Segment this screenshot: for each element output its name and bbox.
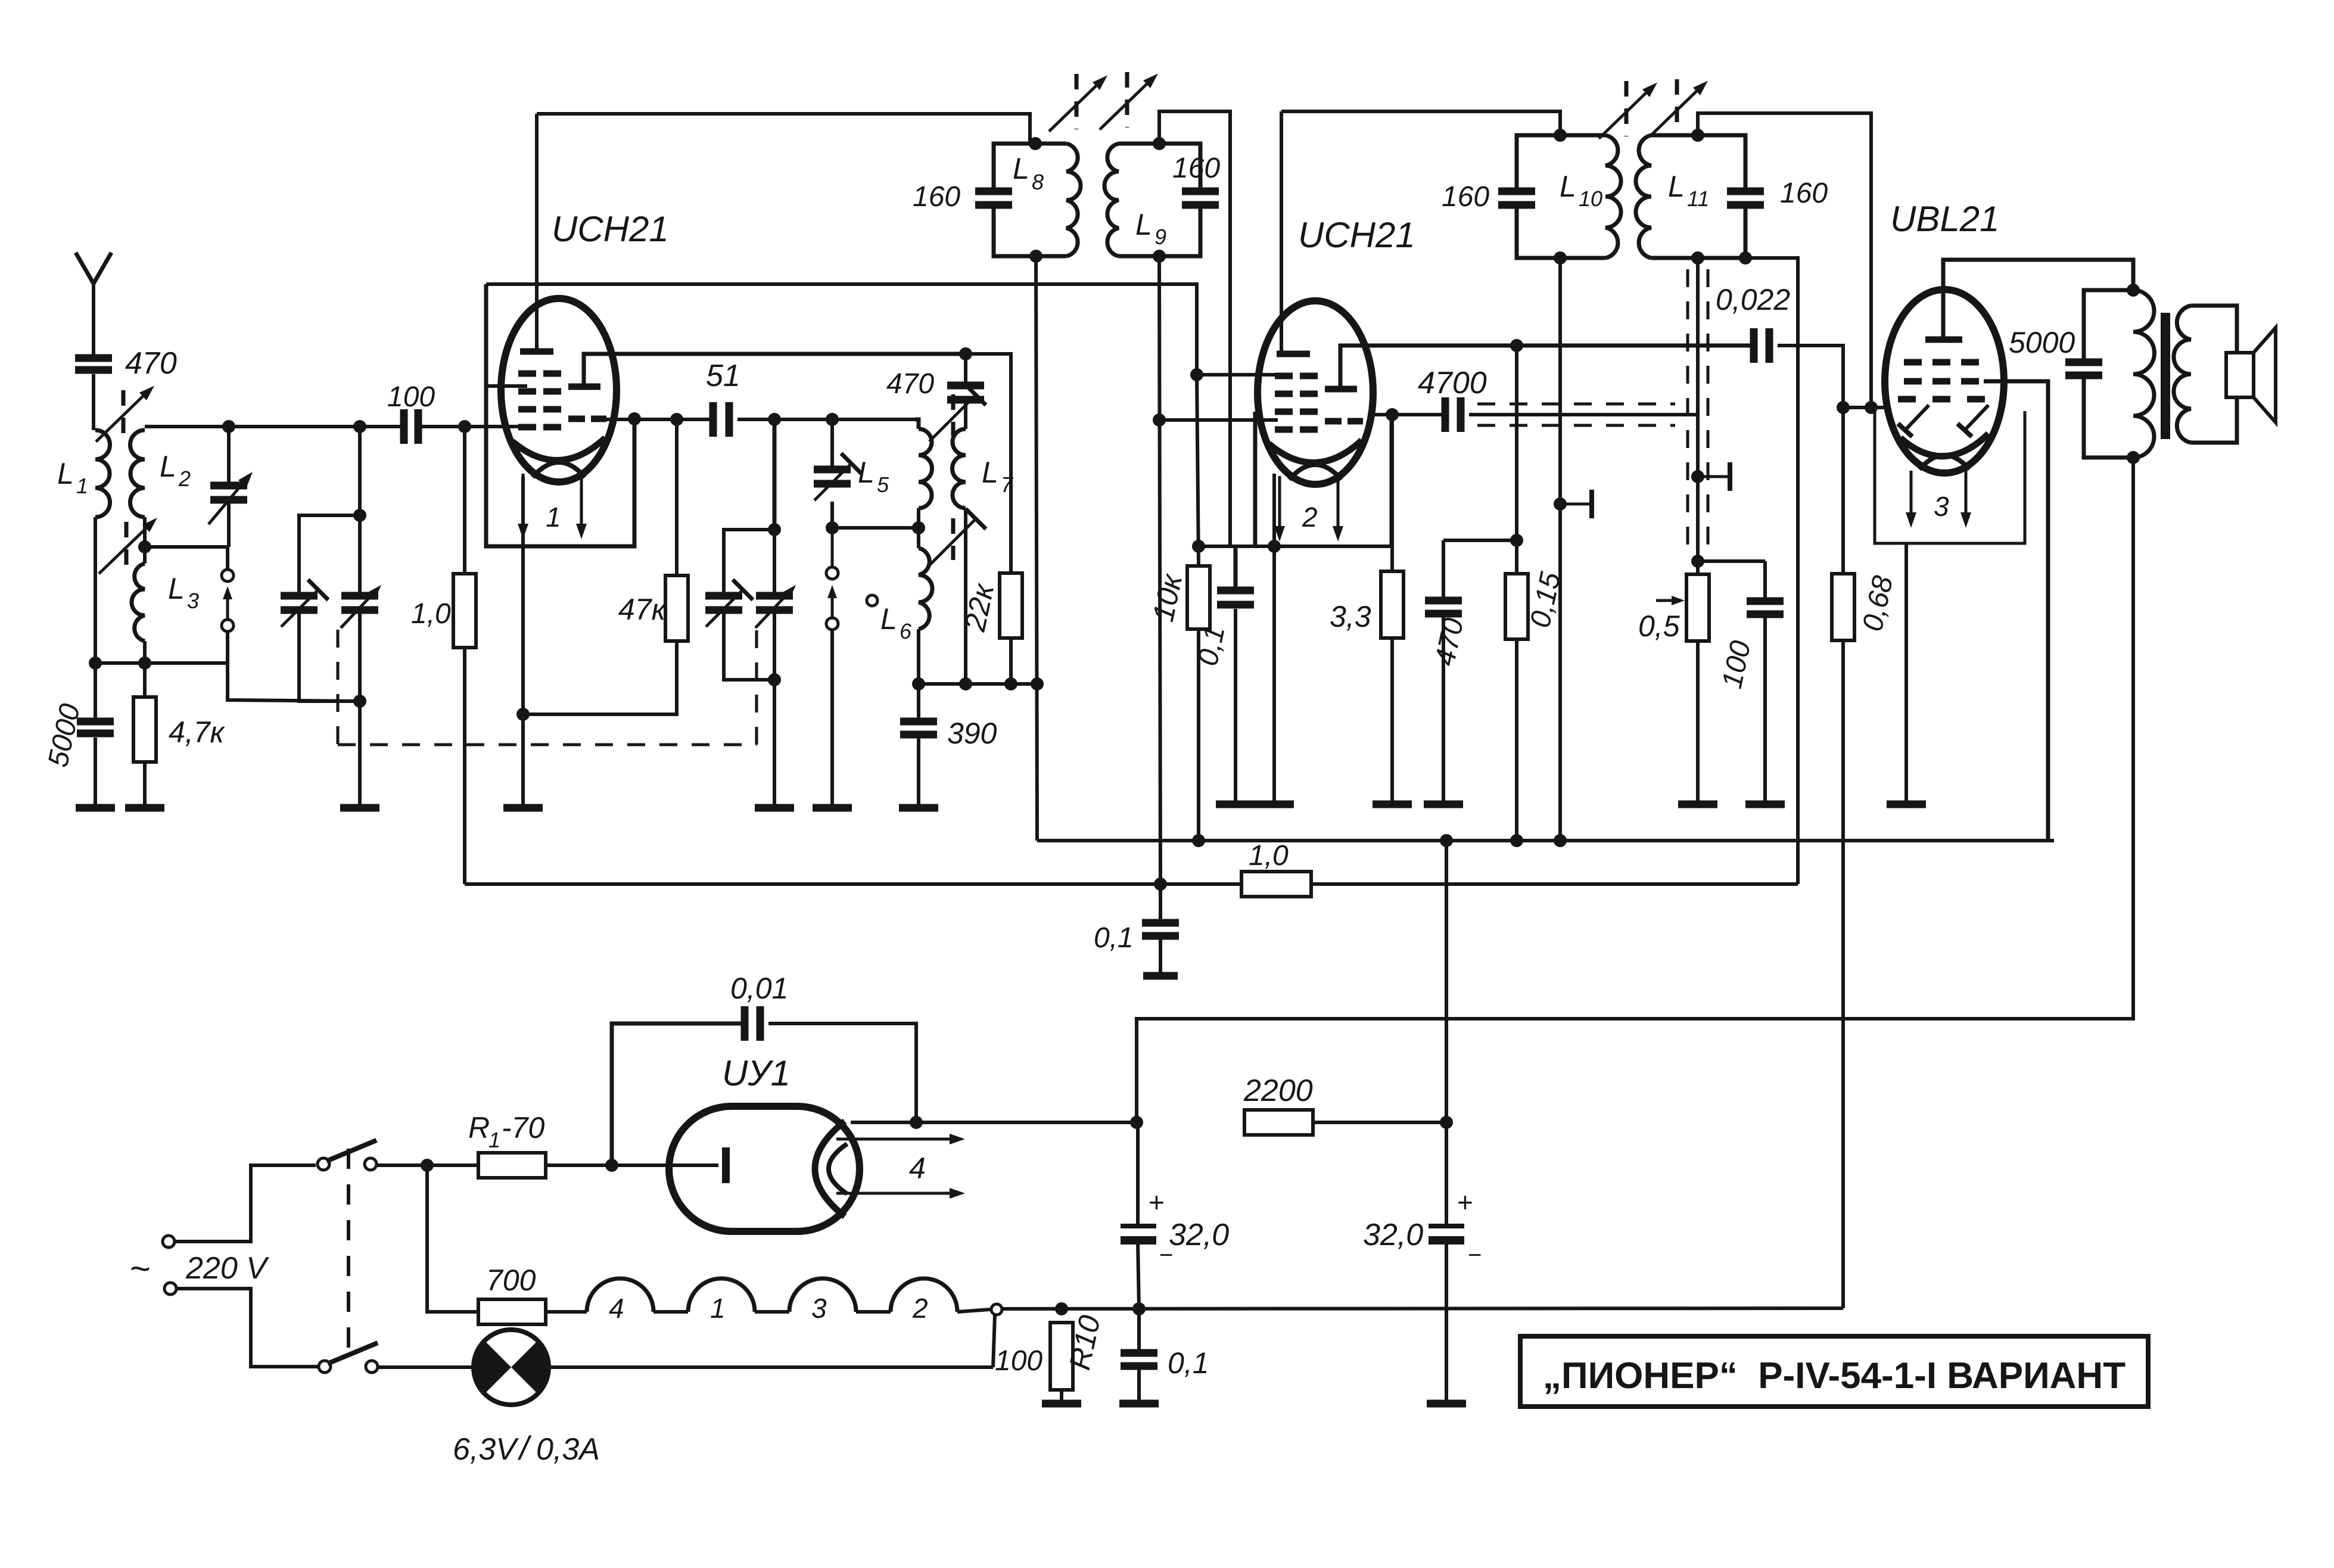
- wire cathode to 47k: [523, 641, 677, 714]
- node R10 node: [1055, 1302, 1068, 1315]
- tube U1 UCH21 grids: [518, 374, 561, 427]
- svg-text:0,3A: 0,3A: [536, 1432, 600, 1467]
- label winding 2: [912, 1293, 928, 1324]
- resistor R9 0.5M pot: [1686, 574, 1709, 641]
- coil L7: [953, 429, 966, 684]
- node t2 sig node: [1153, 413, 1166, 427]
- svg-text:1: 1: [76, 474, 88, 498]
- label U1 name UCH21: [552, 209, 669, 249]
- tuning gang section 1: [358, 427, 362, 701]
- wire t2 grid stub: [1197, 373, 1281, 377]
- node R1 node: [421, 1159, 434, 1172]
- output transformer core: [2161, 313, 2170, 439]
- wire antenna bus: [145, 425, 403, 428]
- node osc anode node: [959, 347, 972, 360]
- capacitor C3 plates: [210, 486, 247, 500]
- tube U3 screen wire: [1984, 381, 2048, 841]
- label C17 value 470: [1429, 615, 1470, 669]
- label title text: [1543, 1355, 2126, 1396]
- label heater winding 2: [1302, 502, 1318, 533]
- capacitor C20 100pF: [1698, 561, 1765, 802]
- wire L11 bottom to AVC corner: [1745, 258, 1798, 884]
- svg-text:L: L: [1560, 170, 1576, 203]
- wire gang2 frame2: [724, 608, 774, 680]
- node L5 tap node: [826, 521, 839, 534]
- label C14 value 160: [1172, 153, 1220, 184]
- tube1 triode anode lead: [584, 354, 966, 387]
- node B+ node c: [1510, 834, 1523, 847]
- capacitor C10 L5 padder: [814, 469, 851, 484]
- capacitor C11 plates: [947, 385, 984, 400]
- node L10 bottom: [1554, 251, 1567, 265]
- wire L11 top to grid line: [1698, 113, 1871, 407]
- resistor 1.0M grid: [463, 427, 466, 574]
- capacitor C14 160pF: [1182, 191, 1219, 205]
- antenna: [76, 253, 111, 356]
- wire gang1 frame2: [299, 608, 360, 701]
- svg-text:UCH21: UCH21: [552, 209, 669, 249]
- shielded lead dashes h: [1477, 404, 1675, 425]
- svg-text:9: 9: [1154, 225, 1166, 249]
- wire osc grid wire: [600, 418, 709, 421]
- tube U3 anode lead: [1943, 260, 2133, 338]
- wire winding to node: [957, 1309, 990, 1312]
- ground S1b ground: [813, 804, 852, 812]
- coil L5: [915, 419, 932, 528]
- wire 3.3M drop: [1390, 415, 1394, 571]
- wire 700 branch: [427, 1165, 478, 1312]
- svg-text:470: 470: [125, 346, 177, 381]
- label R11 value 1,0: [1249, 840, 1289, 872]
- wire gang2 frame: [724, 530, 774, 594]
- C4 arrow: [341, 585, 381, 628]
- node L5L6 node: [912, 521, 925, 534]
- wire gang2 ground lead: [773, 680, 776, 805]
- band switch S1a: [222, 570, 234, 631]
- label C26 plus: [1457, 1187, 1473, 1218]
- svg-text:160: 160: [1780, 178, 1828, 209]
- coil L1: [95, 430, 110, 663]
- label R1 sub: [488, 1128, 500, 1152]
- node gang2 top: [768, 523, 781, 536]
- wire C5000 to ground: [94, 738, 97, 805]
- label L7 sub: [1001, 472, 1014, 497]
- svg-text:51: 51: [706, 359, 740, 393]
- oscillator feedback loop tube1: [486, 284, 634, 546]
- label R7 value 3,3: [1330, 600, 1371, 633]
- ground C390 ground: [899, 804, 938, 812]
- node screen node: [1510, 534, 1523, 547]
- tube U3 cathode: [1900, 434, 1988, 469]
- ground tube2 cathode ground: [1255, 801, 1294, 808]
- tube U3 anode: [1925, 337, 1962, 343]
- wire switch to R1: [376, 1163, 478, 1167]
- label L3: [168, 572, 185, 605]
- node anode junction UY1: [605, 1159, 618, 1172]
- capacitor C2 5000pF: [77, 721, 114, 733]
- svg-text:L: L: [858, 456, 875, 489]
- svg-text:160: 160: [1172, 153, 1220, 184]
- wire L5-L6 tap: [832, 526, 919, 530]
- tube U2 UCH21 envelope: [1258, 301, 1373, 484]
- svg-text:0,01: 0,01: [730, 972, 788, 1005]
- ground C17 ground: [1424, 801, 1463, 808]
- label L8 sub: [1032, 170, 1044, 194]
- capacitor C7 51pF: [713, 402, 729, 437]
- tube U4 heater pins: [836, 1134, 965, 1199]
- pilot lamp 6.3V: [378, 1365, 993, 1369]
- label R1 name: [468, 1111, 490, 1144]
- svg-text:470: 470: [886, 368, 934, 400]
- label L2: [160, 450, 176, 483]
- node B+ node b: [1440, 834, 1453, 847]
- svg-text:100: 100: [995, 1345, 1042, 1377]
- label R2 value 4,7к: [169, 715, 226, 749]
- wire R1.0 to AVC bus: [463, 648, 466, 884]
- svg-text:UCH21: UCH21: [1298, 215, 1415, 255]
- tube U3 grid rows: [1898, 362, 1985, 399]
- speaker: [2191, 306, 2276, 443]
- svg-text:0,022: 0,022: [1716, 283, 1790, 316]
- svg-text:+: +: [1457, 1187, 1473, 1218]
- svg-text:−: −: [1468, 1242, 1482, 1268]
- resistor R4 47k: [665, 575, 688, 641]
- trimmer arrow T1 slug arrow a: [1049, 74, 1107, 132]
- wire B+ filtered up: [1445, 841, 1448, 1122]
- node B+ node a: [1192, 834, 1205, 847]
- node cathode node t1: [516, 708, 530, 721]
- svg-text:L: L: [982, 456, 998, 489]
- node AVC node: [1154, 878, 1167, 891]
- node L9 bottom: [1153, 250, 1166, 263]
- svg-text:32,0: 32,0: [1169, 1218, 1229, 1252]
- ground tube1 cathode ground: [503, 804, 543, 812]
- tube U3 UBL21 envelope: [1885, 290, 2004, 473]
- ground antenna ground: [76, 804, 115, 812]
- wire 2200 out: [1313, 1121, 1446, 1124]
- trimmer arrow T2 slug arrow a: [1599, 81, 1657, 139]
- label C16 value 4700: [1418, 366, 1487, 400]
- capacitor C21 plates: [1754, 328, 1769, 363]
- node L8 bottom: [1029, 250, 1042, 263]
- svg-text:L: L: [1013, 152, 1029, 185]
- node gang1 top: [353, 509, 366, 522]
- node osc grid node: [670, 413, 683, 426]
- tube U2 UCH21 triode anode: [1325, 386, 1357, 393]
- tube U2 UCH21 triode grid dashes: [1325, 418, 1363, 425]
- capacitor C15 0.1: [1234, 546, 1238, 802]
- label mains 220 V: [185, 1251, 269, 1286]
- band switch S1b: [826, 528, 838, 630]
- label L3 sub: [187, 589, 199, 613]
- node B+ filtered node: [1440, 1116, 1453, 1129]
- ground R10 ground: [1042, 1400, 1081, 1408]
- wire 0.01 to B+: [768, 1023, 916, 1122]
- wire L2 bottom to switch: [145, 547, 228, 570]
- label C6 value 100: [387, 381, 435, 413]
- svg-text:6,3V: 6,3V: [453, 1432, 519, 1467]
- label L10 sub: [1579, 186, 1602, 211]
- tube2 anode top lead: [1280, 111, 1283, 351]
- svg-text:4: 4: [609, 1293, 624, 1324]
- label C18 value 160: [1442, 181, 1489, 213]
- wire L9 top to osc grid: [1159, 111, 1230, 546]
- label lamp rating3: [536, 1432, 600, 1467]
- label R3 value 1,0: [411, 598, 451, 630]
- capacitor C24 plates: [745, 1006, 760, 1041]
- tube2 triode anode lead: [1340, 346, 1750, 389]
- capacitor C18 160pF: [1498, 191, 1535, 205]
- label R6 value 10к: [1146, 570, 1189, 624]
- svg-text:L: L: [57, 457, 74, 490]
- wire 47k top to osc grid: [675, 419, 679, 575]
- wire mains top: [175, 1165, 316, 1242]
- wire antenna cap to L1: [92, 374, 95, 430]
- label C21 value 0,022: [1716, 283, 1790, 316]
- svg-text:2: 2: [1302, 502, 1318, 533]
- svg-text:2: 2: [912, 1293, 928, 1324]
- resistor R6 10k: [1187, 566, 1210, 629]
- resistor R13 700: [478, 1299, 546, 1324]
- tube U4 UY1 envelope: [669, 1106, 860, 1231]
- wire tube1 grid2 stub: [486, 384, 527, 388]
- resistor R11 1.0M AVC: [1241, 872, 1311, 897]
- trimmer arrow L7 trim arrow: [929, 385, 986, 441]
- capacitor C26 32.0 second: [1445, 1122, 1448, 1224]
- tube U1 UCH21 heater pins: [518, 474, 587, 539]
- label L6: [880, 602, 897, 636]
- label R1 value -70: [502, 1111, 544, 1144]
- wire tube2 signal grid wire: [1159, 418, 1278, 422]
- svg-text:L: L: [160, 450, 176, 483]
- label L5 sub: [877, 472, 889, 497]
- ground tube3 cathode ground: [1887, 801, 1926, 808]
- wire tube1 cathode lead: [521, 477, 525, 805]
- label C26 minus: [1468, 1242, 1482, 1268]
- resistor R2 4.7k: [133, 697, 156, 762]
- capacitor C20 plates: [1747, 601, 1784, 614]
- wire bottom link L1-L3: [95, 661, 228, 665]
- node pot top node: [1691, 555, 1704, 568]
- label L7: [982, 456, 998, 489]
- svg-text:-70: -70: [502, 1111, 544, 1144]
- node L11 top: [1691, 129, 1704, 142]
- svg-text:8: 8: [1032, 170, 1044, 194]
- ground gang1 ground: [340, 804, 379, 812]
- capacitor C16 4700pF: [1372, 413, 1442, 416]
- label L1: [57, 457, 74, 490]
- capacitor C12 plates: [900, 721, 937, 735]
- label C24 value 0,01: [730, 972, 788, 1005]
- label lamp rating2: [517, 1429, 532, 1467]
- node L11 bottom b: [1739, 251, 1752, 265]
- label L6 sub: [900, 619, 912, 643]
- node L2 bottom node: [138, 540, 151, 553]
- ground C20 ground: [1745, 801, 1785, 808]
- capacitor C24 0.01: [612, 1023, 741, 1165]
- svg-text:1: 1: [710, 1293, 726, 1324]
- svg-text:160: 160: [1442, 181, 1489, 213]
- svg-text:+: +: [1149, 1187, 1165, 1218]
- IF transformer T1 box L9: [1104, 144, 1200, 256]
- tube U1 UCH21 cathode: [512, 438, 605, 477]
- svg-text:UBL21: UBL21: [1890, 199, 1999, 239]
- ground R3.3 ground: [1373, 801, 1412, 808]
- label C11 value 470: [886, 368, 934, 400]
- svg-text:1,0: 1,0: [411, 598, 451, 630]
- node gang2 bottom: [768, 673, 781, 686]
- trimmer arrow L1-L2 coupling arrow: [99, 518, 157, 574]
- capacitor C27 0.1 bottom: [1137, 1309, 1141, 1401]
- wire rectifier output: [851, 1121, 1137, 1124]
- node ant bus node 1: [222, 420, 235, 433]
- capacitor C22 plates: [2065, 362, 2102, 375]
- node gang1 bottom: [353, 695, 366, 708]
- switch S2b: [319, 1343, 378, 1373]
- svg-text:7: 7: [1001, 472, 1014, 497]
- node 22k bottom node: [1004, 677, 1017, 690]
- wire L9 bottom to AVC: [1159, 256, 1160, 884]
- label L9 sub: [1154, 225, 1166, 249]
- resistor R 0.68M grid: [1841, 407, 1845, 574]
- pot wiper arrow: [1656, 596, 1685, 605]
- node 10k top node: [1192, 540, 1205, 553]
- C3 arrow: [208, 472, 253, 524]
- tube U1 UCH21 anode (hexode): [520, 349, 553, 355]
- screen chain 0.15: [1515, 346, 1518, 574]
- node L11 bottom: [1691, 251, 1704, 265]
- wire AVC bus left: [465, 882, 1241, 886]
- shield tap T a: [1554, 490, 1592, 518]
- svg-text:0,1: 0,1: [1094, 922, 1134, 954]
- wire B+ bus: [1037, 839, 2054, 842]
- resistor R1 70ohm: [478, 1153, 546, 1178]
- ground pot ground: [1678, 801, 1717, 808]
- capacitor C17 plates: [1425, 601, 1462, 614]
- node det node: [1510, 339, 1523, 352]
- svg-text:L: L: [1668, 170, 1685, 203]
- label winding 1: [710, 1293, 726, 1324]
- C5 trimmer arrow: [281, 580, 328, 627]
- node L9 top: [1153, 137, 1166, 150]
- wire 0.68 to chassis bus: [1841, 640, 1845, 1308]
- label C7 value 51: [706, 359, 740, 393]
- switch link dashed: [347, 1149, 350, 1361]
- label C20 value 100: [1716, 638, 1757, 692]
- label L8: [1013, 152, 1029, 185]
- C8 arrow: [755, 585, 796, 628]
- trimmer arrow L6 trim arrow: [929, 509, 986, 565]
- wire C26 to ground: [1445, 1243, 1448, 1401]
- label R9 value 0,5: [1638, 609, 1680, 643]
- svg-text:3: 3: [1934, 491, 1949, 522]
- label L5: [858, 456, 875, 489]
- node OT primary top: [2127, 284, 2140, 297]
- resistor R5 22k: [1000, 573, 1022, 638]
- node OT primary bottom: [2127, 451, 2140, 464]
- title box: [1520, 1336, 2148, 1407]
- variable capacitor C3 (L2 tank): [227, 427, 231, 547]
- svg-text:220 V: 220 V: [185, 1251, 269, 1286]
- capacitor C23 0.1 AVC: [1159, 884, 1162, 973]
- tube U3 heater pins: [1906, 471, 1971, 528]
- wire chassis bus: [1002, 1308, 1843, 1309]
- label R5 value 22к: [958, 580, 1001, 634]
- label U4 name UY1: [722, 1053, 791, 1093]
- wire 700 to winding: [546, 1310, 587, 1314]
- capacitor C13 160pF: [975, 191, 1012, 205]
- L5 branch trimmer: [830, 419, 834, 528]
- svg-text:4: 4: [909, 1152, 926, 1185]
- svg-text:4700: 4700: [1418, 366, 1487, 400]
- switch S2a: [318, 1140, 376, 1170]
- svg-text:10: 10: [1579, 186, 1602, 211]
- tube U2 UCH21 anode (hexode): [1277, 351, 1310, 357]
- wire OT return: [1137, 458, 2133, 1122]
- volume pot feed (shielded): [1696, 258, 1700, 561]
- label R14 name R10: [1063, 1312, 1107, 1373]
- label C25 minus: [1159, 1242, 1173, 1268]
- label U4 heater 4: [909, 1152, 926, 1185]
- wire pot to ground: [1696, 641, 1700, 802]
- ground C15 ground: [1216, 801, 1255, 808]
- svg-text:2: 2: [178, 466, 191, 491]
- svg-text:700: 700: [486, 1264, 536, 1297]
- capacitor C6 100pF: [404, 409, 418, 444]
- node L3 bottom: [138, 657, 151, 670]
- label L11: [1668, 170, 1685, 203]
- wire 0.15 to B+ bus: [1515, 639, 1518, 841]
- label R12 value 2200: [1243, 1074, 1313, 1108]
- capacitor C23 plates: [1142, 923, 1179, 936]
- wire L1 to C5000: [94, 663, 97, 720]
- wire 4700 out: [1469, 413, 1697, 416]
- label C13 value 160: [913, 181, 960, 213]
- svg-text:3,3: 3,3: [1330, 600, 1371, 633]
- resistor R12 2200: [1244, 1110, 1313, 1135]
- label C27 value 0,1: [1168, 1346, 1209, 1380]
- output transformer primary: [2133, 290, 2154, 458]
- wire 22k bottom stub: [1009, 638, 1013, 684]
- label L2 sub: [178, 466, 191, 491]
- label L11 sub: [1687, 186, 1709, 211]
- resistor R3 1.0M: [453, 574, 476, 648]
- label L10: [1560, 170, 1576, 203]
- capacitor C12 390pF: [917, 684, 920, 805]
- svg-text:4,7к: 4,7к: [169, 715, 226, 749]
- C10 trimmer arrow: [814, 453, 861, 500]
- tube U2 UCH21 grids: [1275, 376, 1318, 430]
- wire R10 to ground: [1060, 1390, 1063, 1401]
- node ant bus node 2: [353, 420, 366, 433]
- label C2 value 5000: [42, 701, 86, 770]
- label winding 4: [609, 1293, 624, 1324]
- svg-text:3: 3: [811, 1293, 827, 1324]
- label R13 value 700: [486, 1264, 536, 1297]
- wire C25 to bus: [1138, 1243, 1139, 1309]
- wire tube2 cathode lead: [1272, 474, 1276, 802]
- capacitor C27 plates: [1121, 1353, 1157, 1366]
- label R8 value 0,15: [1524, 570, 1567, 631]
- label R4 value 47к: [618, 593, 667, 626]
- node feedback node: [628, 412, 641, 425]
- label U2 name UCH21: [1298, 215, 1415, 255]
- svg-text:390: 390: [947, 717, 997, 750]
- node B+ raw node: [910, 1116, 923, 1129]
- svg-text:32,0: 32,0: [1363, 1218, 1423, 1252]
- svg-text:~: ~: [130, 1249, 151, 1289]
- tube U4 anode: [722, 1147, 730, 1183]
